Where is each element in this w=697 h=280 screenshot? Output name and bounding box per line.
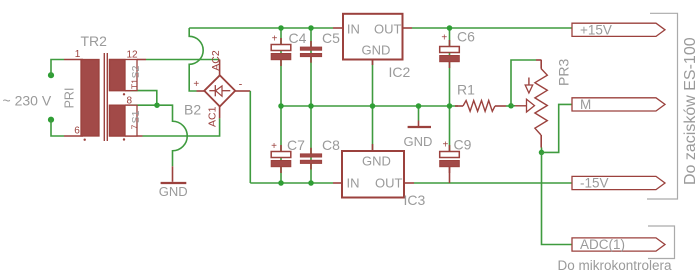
- svg-text:C8: C8: [322, 137, 340, 153]
- svg-text:GND: GND: [404, 134, 433, 149]
- svg-text:C5: C5: [322, 30, 340, 46]
- svg-text:-: -: [239, 79, 243, 91]
- svg-text:GND: GND: [362, 43, 391, 58]
- svg-text:AC2: AC2: [210, 50, 222, 71]
- svg-text:+: +: [272, 34, 278, 45]
- svg-text:C4: C4: [289, 30, 307, 46]
- svg-text:GND: GND: [362, 154, 391, 169]
- svg-text:Do zacisków ES-100: Do zacisków ES-100: [682, 37, 697, 185]
- svg-text:+15V: +15V: [580, 22, 612, 37]
- svg-text:IN: IN: [347, 175, 360, 190]
- svg-text:PR3: PR3: [556, 59, 572, 86]
- svg-text:IN: IN: [347, 22, 360, 37]
- svg-text:C9: C9: [454, 137, 472, 153]
- svg-text:IC2: IC2: [389, 64, 411, 80]
- svg-text:+: +: [193, 79, 199, 90]
- svg-text:S1: S1: [130, 110, 142, 123]
- svg-text:GND: GND: [159, 184, 188, 199]
- svg-text:6: 6: [74, 126, 80, 137]
- svg-text:R1: R1: [457, 82, 475, 98]
- svg-text:+: +: [442, 140, 448, 151]
- svg-text:Do mikrokontrolera: Do mikrokontrolera: [558, 258, 673, 273]
- svg-text:PRI: PRI: [63, 88, 77, 109]
- svg-text:C7: C7: [287, 137, 305, 153]
- svg-text:7: 7: [130, 124, 140, 129]
- svg-text:12: 12: [127, 49, 139, 60]
- svg-text:C6: C6: [457, 29, 475, 45]
- svg-text:OUT: OUT: [375, 175, 403, 190]
- svg-text:-15V: -15V: [580, 176, 609, 191]
- svg-text:~ 230 V: ~ 230 V: [3, 92, 52, 108]
- svg-text:+: +: [271, 141, 277, 152]
- svg-text:S2: S2: [130, 65, 142, 78]
- svg-text:TR2: TR2: [81, 33, 108, 49]
- svg-text:1: 1: [75, 49, 81, 60]
- svg-text:8: 8: [127, 96, 133, 107]
- svg-text:M: M: [580, 97, 591, 112]
- svg-text:+: +: [441, 33, 447, 44]
- svg-text:ADC(1): ADC(1): [580, 237, 625, 252]
- svg-text:B2: B2: [184, 102, 201, 118]
- svg-text:OUT: OUT: [374, 22, 402, 37]
- svg-text:IC3: IC3: [404, 192, 426, 208]
- svg-text:T1: T1: [130, 79, 140, 89]
- svg-text:AC1: AC1: [207, 106, 219, 127]
